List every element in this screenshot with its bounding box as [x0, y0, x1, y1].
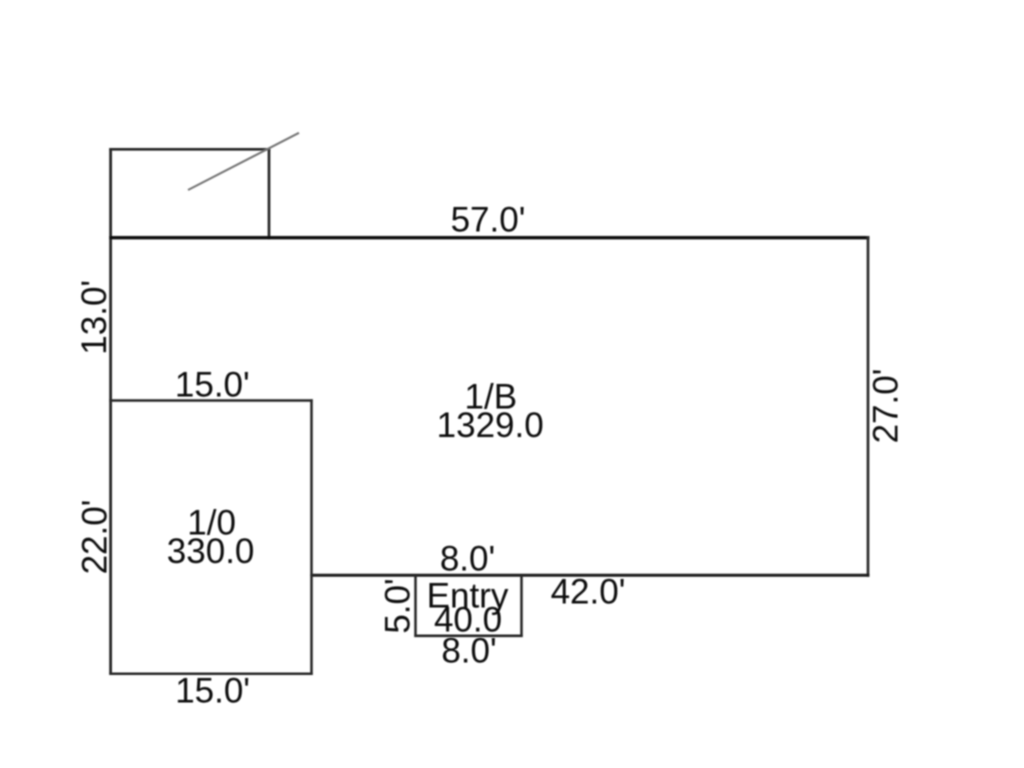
svg-text:27.0': 27.0' [867, 369, 906, 444]
wall: entry box left (5.0') [414, 575, 417, 637]
svg-text:22.0': 22.0' [76, 500, 115, 575]
svg-text:5.0': 5.0' [379, 578, 418, 633]
wall: left side (garage + 13.0' + 22.0' segments) [109, 148, 112, 675]
svg-text:42.0': 42.0' [551, 573, 626, 612]
wall: garage right [268, 148, 271, 239]
svg-text:15.0': 15.0' [175, 672, 250, 711]
svg-text:330.0: 330.0 [167, 532, 255, 571]
svg-text:8.0': 8.0' [441, 632, 496, 671]
wall: main top (57.0') [109, 236, 869, 239]
wall: 1/0 box right [310, 399, 313, 675]
svg-text:57.0': 57.0' [451, 201, 526, 240]
wall: main right (27.0') [867, 236, 870, 577]
wall: garage top [109, 148, 270, 151]
svg-text:8.0': 8.0' [440, 540, 495, 579]
wall: main bottom (42.0') [310, 574, 869, 577]
wall: 1/0 box top (15.0') [109, 399, 312, 402]
wall: entry box bottom (8.0') [414, 634, 522, 637]
wall: entry box right [520, 575, 523, 637]
wall: 1/0 box bottom (15.0') [109, 673, 312, 676]
svg-text:13.0': 13.0' [75, 280, 114, 355]
diagonal strike line through garage [188, 133, 299, 190]
svg-text:1329.0: 1329.0 [437, 406, 544, 445]
svg-text:15.0': 15.0' [175, 365, 250, 404]
